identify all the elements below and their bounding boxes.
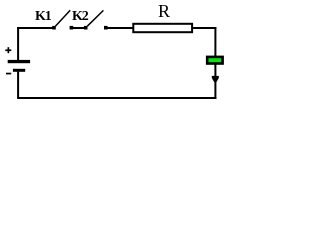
battery BT1 plus sign [5,47,11,53]
wire: K2 right contact to resistor R left lead [106,27,133,29]
LED D1 body (green rectangle) [207,57,222,64]
wire: right vertical from corner down to LED body [214,27,216,57]
switch K2 blade (open) [87,10,103,26]
wire: bottom rail [17,97,216,99]
wire: battery negative plate down to bottom rail [17,72,19,98]
wire: between K1 and K2 contacts [71,27,85,29]
resistor R body [133,24,192,32]
battery BT1 minus sign [6,73,11,75]
wire: top rail from left corner to switch K1 left contact [17,27,53,29]
switch K1 blade (open) [55,10,70,26]
wire: left vertical from top rail down to battery positive plate [17,27,19,61]
wire: resistor R right lead to top-right corner [193,27,216,29]
current direction arrow (downward) [212,76,219,82]
switch K2 left contact dot [84,26,88,30]
switch K1 right contact dot [70,26,74,30]
label R [158,1,170,22]
label K1 [35,9,51,25]
battery BT1 negative plate (short) [13,69,25,72]
wire: arrow down to bottom rail [214,80,216,99]
switch K2 right contact dot [104,26,108,30]
wire: LED body down to current arrow [214,64,216,77]
battery BT1 positive plate (long) [8,60,30,63]
label K2 [72,9,88,25]
switch K1 left contact dot [52,26,56,30]
